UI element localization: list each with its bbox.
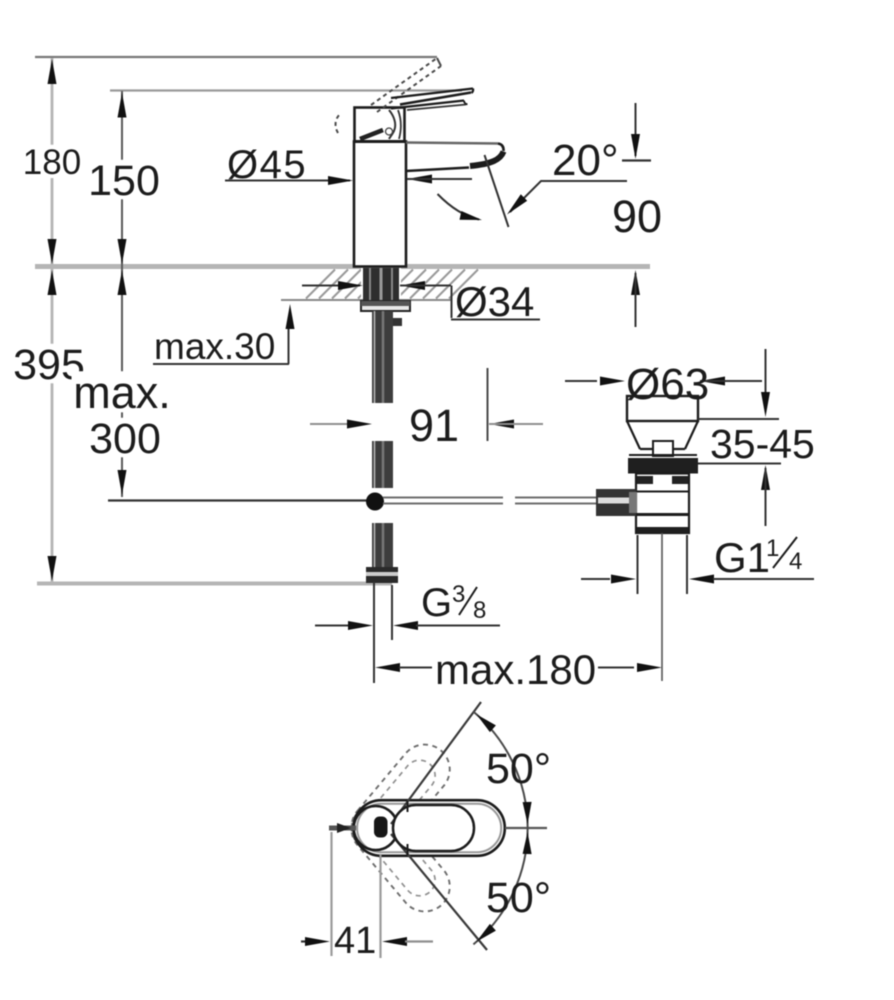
- svg-text:20°: 20°: [552, 136, 619, 185]
- svg-text:50°: 50°: [486, 874, 551, 922]
- svg-text:max.180: max.180: [435, 646, 596, 693]
- svg-text:50°: 50°: [486, 745, 551, 793]
- svg-text:150: 150: [88, 157, 160, 205]
- svg-text:Ø63: Ø63: [626, 360, 709, 409]
- svg-text:G: G: [421, 581, 452, 625]
- svg-text:max.30: max.30: [154, 326, 275, 367]
- svg-text:91: 91: [409, 400, 459, 451]
- svg-text:1: 1: [766, 535, 779, 562]
- svg-text:90: 90: [612, 191, 662, 242]
- svg-text:180: 180: [23, 143, 81, 182]
- svg-text:35-45: 35-45: [710, 421, 815, 467]
- svg-text:8: 8: [473, 597, 486, 624]
- svg-text:300: 300: [89, 415, 161, 463]
- svg-text:Ø34: Ø34: [455, 278, 534, 325]
- svg-text:Ø45: Ø45: [227, 143, 307, 187]
- svg-text:4: 4: [789, 548, 802, 575]
- svg-text:3: 3: [452, 581, 465, 608]
- svg-text:G1: G1: [714, 534, 770, 581]
- svg-text:max.: max.: [73, 367, 171, 418]
- svg-text:41: 41: [334, 920, 376, 962]
